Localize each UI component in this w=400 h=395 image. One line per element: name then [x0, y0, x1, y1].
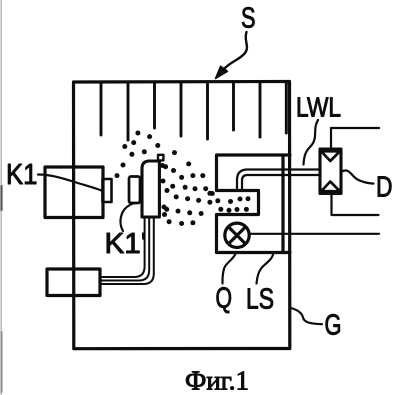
optical fiber inside LS (double line) — [237, 170, 320, 191]
detector D upper prism triangle — [321, 151, 340, 161]
K1 nozzle bump — [103, 179, 112, 202]
K1' leader line — [120, 203, 134, 231]
svg-text:K1: K1 — [6, 159, 38, 191]
cable line 2 — [101, 217, 150, 281]
G leader line — [291, 308, 322, 324]
nozzle K1' bump — [129, 177, 140, 204]
lamp Q cross — [229, 227, 246, 244]
scan artifact left margin line — [0, 0, 2, 395]
nozzle K1' tip nub — [158, 155, 163, 161]
detector D body — [320, 149, 341, 194]
LS leader line — [257, 253, 274, 284]
K1 leader line — [38, 175, 102, 191]
arrowhead of S — [216, 66, 228, 78]
LWL leader line — [304, 120, 319, 165]
cable line 3 — [101, 217, 154, 284]
cable line 1 from feed-through to nozzle — [101, 217, 145, 277]
svg-text:K1': K1' — [105, 228, 147, 260]
svg-text:D: D — [376, 172, 393, 204]
lower left feed-through box — [47, 269, 100, 296]
sieve comb lines at top of housing — [101, 83, 286, 140]
svg-text:Q: Q — [216, 283, 233, 315]
housing G outer box — [74, 82, 290, 349]
svg-text:S: S — [241, 3, 256, 35]
Q leader line — [222, 253, 236, 284]
svg-text:G: G — [325, 310, 342, 342]
light barrier LS housing — [217, 155, 291, 253]
D leader line — [342, 170, 374, 183]
arrow S leader — [225, 32, 247, 69]
lamp lead line to right — [250, 233, 380, 235]
spray dots — [115, 131, 251, 227]
svg-text:LS: LS — [246, 284, 274, 316]
detector bottom lead — [332, 194, 379, 216]
lamp Q circle — [225, 223, 249, 247]
svg-text:LWL: LWL — [296, 92, 341, 123]
nozzle K1' bar — [142, 161, 159, 217]
detector D lower prism triangle — [321, 182, 340, 192]
component K1 box (left wall mounted) — [45, 167, 103, 218]
detector top lead — [331, 128, 379, 149]
svg-text:Фиг.1: Фиг.1 — [185, 366, 249, 395]
